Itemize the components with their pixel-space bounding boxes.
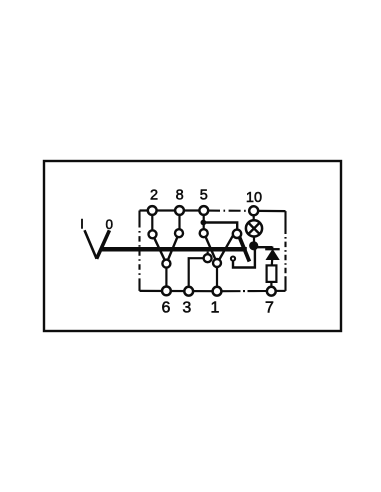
terminal 5	[199, 206, 208, 215]
terminal 10	[249, 206, 258, 215]
wire terminal 1 riser to contact F	[216, 267, 218, 287]
svg-text:1: 1	[211, 300, 220, 317]
wire terminal 3 riser to contact E	[189, 258, 204, 287]
contact A below terminal 2	[149, 230, 157, 238]
label terminal 1	[211, 300, 220, 317]
diode V1 (cathode bar up, triangle pointing up)	[265, 247, 280, 260]
actuator bar (thick switch slider)	[101, 247, 247, 252]
wire terminal 5 drop	[203, 215, 205, 230]
svg-text:2: 2	[150, 188, 158, 204]
wire right housing dash-dot vertical	[284, 211, 286, 291]
wire stub above contact E	[207, 252, 209, 255]
contact F above terminal 1	[213, 259, 221, 267]
label terminal 7	[265, 300, 274, 317]
wire contact B to terminal 6	[165, 268, 167, 288]
wire lamp bottom to node	[253, 236, 255, 243]
label terminal 8	[176, 188, 184, 204]
label terminal 3	[182, 300, 191, 317]
wire top bus solid (10 to right corner)	[258, 210, 286, 212]
contact D below terminal 5	[200, 229, 208, 237]
wire bridge diagonal pivot-1	[217, 236, 233, 263]
wire terminal 2 drop	[151, 215, 153, 231]
wire node down and hook contact	[233, 246, 255, 268]
wire top bus dash-dot (between 5 and 10)	[208, 210, 249, 212]
terminal 3	[184, 287, 193, 296]
wire node to diode branch	[256, 246, 272, 248]
svg-text:10: 10	[246, 190, 262, 206]
contact B above terminal 6	[162, 260, 170, 268]
wire bottom bus solid (left corner through 6,3 to 1)	[140, 290, 218, 293]
wire bridge diagonal 2-6	[153, 234, 167, 263]
wire bottom bus dash-dot (1 to 7 to right corner)	[222, 290, 286, 292]
svg-text:8: 8	[176, 188, 184, 204]
wire bridge diagonal 5-1	[204, 233, 217, 263]
terminal 7	[267, 287, 276, 296]
border frame	[44, 161, 341, 331]
label 0 (switch position 0)	[105, 217, 113, 232]
label terminal 6	[162, 300, 171, 317]
label terminal 2	[150, 188, 158, 204]
wire bridge diagonal 8-6	[166, 233, 179, 263]
wire top bus solid (left corner through 2,8 to 5)	[140, 209, 205, 211]
contact C below terminal 8	[175, 229, 183, 237]
wire 10 drop to lamp	[253, 215, 255, 221]
node junction below lamp	[249, 241, 258, 250]
contact E fed from terminal 3	[204, 254, 212, 262]
label terminal 10	[246, 190, 262, 206]
svg-text:I: I	[80, 216, 84, 231]
svg-text:0: 0	[105, 217, 113, 232]
label I (switch position I)	[80, 216, 84, 231]
label terminal 5	[200, 188, 208, 204]
wire resistor to terminal 7	[270, 282, 272, 287]
contact tip small circle on hook	[231, 257, 235, 261]
terminal 2	[148, 206, 157, 215]
wire left housing dash-dot vertical	[138, 211, 140, 291]
svg-text:6: 6	[162, 300, 171, 317]
terminal 6	[162, 287, 171, 296]
moving contact arm	[239, 237, 249, 262]
wire terminal 8 drop	[178, 215, 180, 230]
svg-text:5: 5	[200, 188, 208, 204]
lever (switch actuating lever V)	[85, 230, 110, 258]
contact P pivot	[233, 230, 241, 238]
svg-text:7: 7	[265, 300, 274, 317]
lamp (circle with X)	[246, 220, 262, 236]
wire branch 5 to pivot contact	[203, 223, 237, 231]
terminal 8	[175, 206, 184, 215]
node junction on 5 drop	[201, 220, 207, 226]
resistor R1	[267, 265, 277, 282]
svg-text:3: 3	[182, 300, 191, 317]
wire diode to resistor	[271, 260, 274, 266]
terminal 1	[213, 287, 222, 296]
